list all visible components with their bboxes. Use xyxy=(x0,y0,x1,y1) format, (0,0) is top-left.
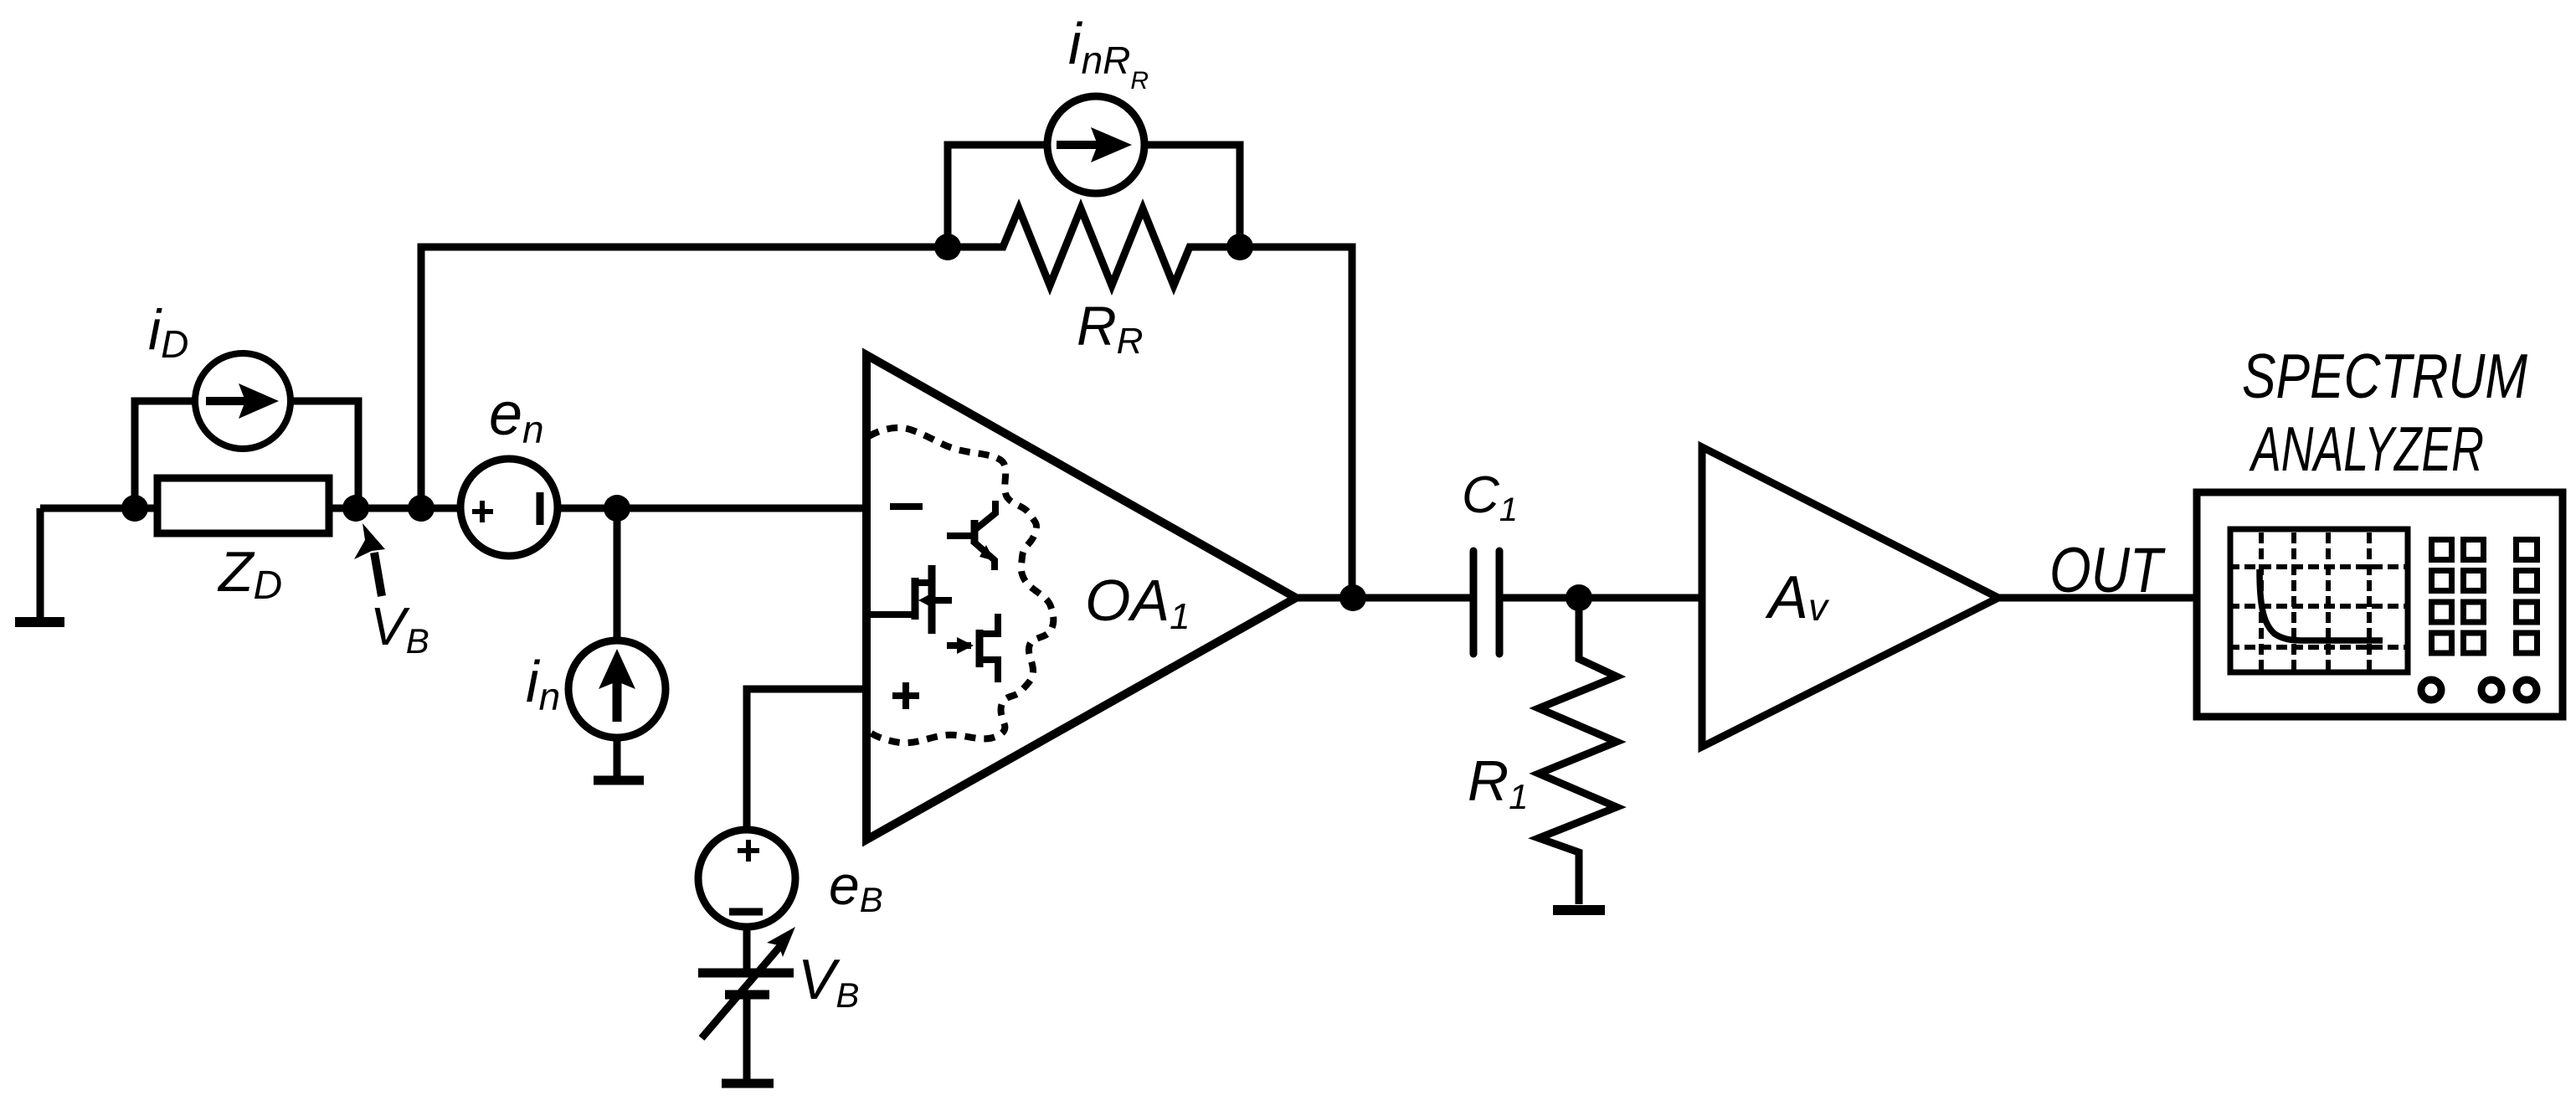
resistor ZD xyxy=(157,478,329,533)
transistor M2 (MOSFET sketch) xyxy=(947,614,998,682)
analyzer keypad right column xyxy=(2517,540,2537,654)
wire main input net xyxy=(40,505,866,512)
resistor RR xyxy=(951,208,1240,286)
arrow VB node pointer xyxy=(354,523,385,596)
analyzer keypad left xyxy=(2432,540,2484,654)
wire eB to battery xyxy=(743,927,751,970)
node E (RR left) xyxy=(934,234,961,260)
svg-text:VB: VB xyxy=(798,948,859,1015)
screen trace curve xyxy=(2260,569,2383,640)
current source inRR xyxy=(1047,96,1144,193)
wire feedback right drop xyxy=(1240,247,1352,598)
transistor Q1 (BJT sketch) xyxy=(947,501,995,570)
resistor R1 xyxy=(1539,598,1617,904)
svg-text:ANALYZER: ANALYZER xyxy=(2249,414,2484,484)
label OA1 minus input xyxy=(890,503,923,510)
analyzer knobs xyxy=(2421,680,2537,700)
svg-text:C1: C1 xyxy=(1462,466,1518,528)
analyzer screen xyxy=(2230,529,2408,672)
battery VB (variable) xyxy=(698,927,795,1038)
op-amp OA1 xyxy=(866,355,1296,840)
amplifier Av xyxy=(1702,447,1998,747)
voltage source eB xyxy=(698,830,795,927)
label OA1 plus input xyxy=(892,682,919,709)
svg-text:eB: eB xyxy=(829,854,883,919)
wire Av to analyzer xyxy=(1998,594,2197,602)
node D (inverting input net) xyxy=(604,495,630,522)
svg-text:RR: RR xyxy=(1077,295,1143,362)
wire output to C1 xyxy=(1296,594,1472,602)
svg-text:iD: iD xyxy=(148,298,188,366)
ground GND3 (under eB) xyxy=(722,1079,774,1088)
wire iD loop xyxy=(135,401,358,508)
node G (op-amp output) xyxy=(1339,584,1366,611)
node B (iD loop right) xyxy=(342,495,369,522)
wire plus input to eB xyxy=(747,689,866,829)
svg-text:ZD: ZD xyxy=(217,540,282,608)
wire in to ground xyxy=(614,738,621,776)
wire in branch xyxy=(614,508,621,640)
svg-text:inRR: inRR xyxy=(1068,11,1149,95)
node A (ZD left) xyxy=(121,495,148,522)
current source in xyxy=(568,640,666,738)
svg-text:in: in xyxy=(526,649,560,718)
node H (R1 tap) xyxy=(1566,584,1592,611)
current source iD xyxy=(195,353,291,449)
ground GND4 (under R1) xyxy=(1553,905,1605,915)
node C (feedback tap) xyxy=(408,495,434,522)
wire C1 to Av xyxy=(1503,594,1702,602)
wire battery to ground xyxy=(743,999,751,1081)
svg-text:VB: VB xyxy=(370,596,429,661)
screen grid dashed xyxy=(2232,532,2406,670)
ground GND1 (left) xyxy=(15,508,64,622)
svg-text:R1: R1 xyxy=(1468,749,1528,816)
wire feedback left riser xyxy=(421,247,951,508)
voltage source en xyxy=(460,459,558,556)
ground GND2 (under in) xyxy=(594,776,644,785)
svg-text:SPECTRUM: SPECTRUM xyxy=(2242,341,2527,411)
dashed input-stage outline xyxy=(869,428,1053,743)
capacitor C1 xyxy=(1473,551,1499,654)
wire RR top loop xyxy=(948,145,1240,247)
svg-text:en: en xyxy=(489,381,544,451)
svg-text:OUT: OUT xyxy=(2049,535,2166,606)
node F (RR right) xyxy=(1226,234,1253,260)
spectrum analyzer box xyxy=(2197,492,2563,717)
transistor M1 (MOSFET sketch) xyxy=(871,565,952,634)
